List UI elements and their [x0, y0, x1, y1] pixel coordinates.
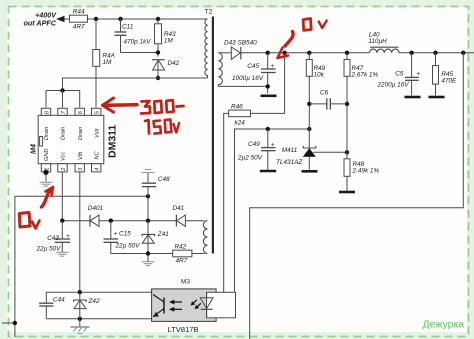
- svg-text:2µ2 50V: 2µ2 50V: [237, 155, 263, 162]
- node: divider junction: [345, 150, 349, 154]
- node: left stub junction: [13, 321, 17, 325]
- svg-text:4R7: 4R7: [73, 24, 85, 31]
- svg-text:+: +: [66, 233, 70, 240]
- svg-text:470p 1kV: 470p 1kV: [124, 39, 152, 46]
- node: drain bus junction: [60, 88, 64, 92]
- svg-text:R46: R46: [231, 104, 243, 111]
- svg-text:+ C15: + C15: [114, 231, 132, 238]
- wire: output feedback loop: [250, 53, 464, 339]
- red annotation: top 0v: [278, 19, 327, 59]
- wire: primary-side 0V line: [15, 195, 148, 197]
- capacitor C44: [39, 292, 53, 319]
- node: R43 top junction: [156, 17, 160, 21]
- wire: R46 riser: [251, 53, 285, 114]
- svg-text:LTV817B: LTV817B: [168, 325, 199, 334]
- svg-text:M411: M411: [282, 147, 298, 154]
- zener Z42: [74, 292, 87, 319]
- diode D43: [231, 47, 241, 60]
- svg-text:4: 4: [95, 168, 101, 171]
- svg-text:R44: R44: [73, 9, 85, 16]
- ground: Z41: [142, 262, 155, 266]
- svg-text:TL431AZ: TL431AZ: [276, 159, 303, 166]
- svg-text:D41: D41: [173, 205, 185, 212]
- svg-text:C6: C6: [320, 89, 329, 96]
- capacitor C49 electrolytic: [261, 129, 276, 170]
- wire: feedback box top line: [46, 291, 151, 293]
- node: Z41 bottom node: [146, 251, 150, 255]
- wire: pin7 riser: [62, 91, 64, 108]
- node: Z42 bottom junction: [78, 317, 82, 321]
- wire: secondary bottom return: [218, 85, 267, 87]
- opto LED: [200, 292, 213, 318]
- capacitor C5 electrolytic: [405, 53, 419, 96]
- svg-text:4R7: 4R7: [176, 258, 188, 265]
- pin 6: [75, 108, 84, 115]
- red annotation: bottom 0v and arrow: [19, 187, 53, 229]
- ground: R45: [429, 96, 445, 99]
- svg-text:10k: 10k: [314, 71, 325, 78]
- svg-text:C49: C49: [248, 141, 260, 148]
- node: R43/C11/D42 junction: [156, 50, 160, 54]
- svg-text:D401: D401: [88, 205, 104, 212]
- node: C48/0V line junction: [146, 194, 150, 198]
- svg-text:C11: C11: [122, 24, 134, 31]
- ground: C49: [260, 170, 276, 173]
- node: C5 rail junction: [409, 51, 413, 55]
- wire: pin8 riser: [45, 91, 47, 108]
- resistor R4A: [93, 50, 100, 67]
- node: Z41 top junction: [146, 219, 150, 223]
- wire: D42 anode to drain line: [157, 70, 159, 78]
- svg-text:1: 1: [45, 168, 51, 171]
- wire: TL431 ref to divider: [313, 151, 347, 153]
- wire: Z42 node to ground: [79, 319, 81, 327]
- resistor R45: [433, 53, 439, 96]
- svg-text:C5: C5: [395, 71, 404, 78]
- svg-text:C48: C48: [158, 176, 170, 183]
- red annotation: left arrow 300-150v: [103, 98, 184, 134]
- node: Z42 top junction: [78, 290, 82, 294]
- zener Z41: [142, 234, 155, 243]
- node: C49 junction: [266, 127, 270, 131]
- transformer T2 primary winding: [205, 19, 208, 78]
- capacitor C15 electrolytic: [104, 238, 119, 240]
- resistor R46: [229, 110, 251, 117]
- ground: pin1: [40, 182, 53, 186]
- node: output corner junction: [461, 51, 465, 55]
- node: D42/drain line junction: [156, 76, 160, 80]
- svg-text:Z41: Z41: [157, 231, 169, 238]
- pin 2: [58, 164, 67, 172]
- opto phototransistor: [153, 295, 164, 317]
- resistor R43: [155, 24, 162, 44]
- svg-text:Drain: Drain: [78, 127, 84, 140]
- svg-text:22µ 50V: 22µ 50V: [115, 242, 141, 249]
- svg-text:M4: M4: [29, 144, 38, 154]
- wire: C43 column: [61, 221, 63, 239]
- svg-text:D42: D42: [168, 60, 180, 67]
- pin 4: [92, 164, 101, 172]
- svg-text:+: +: [271, 63, 275, 70]
- wire: Vcc diode line segments: [62, 220, 90, 222]
- wire: TL431 cathode rail (k24 rail): [235, 129, 310, 318]
- svg-text:M3: M3: [181, 279, 190, 286]
- pin 8: [41, 108, 50, 115]
- svg-text:2.49k 1%: 2.49k 1%: [352, 168, 380, 175]
- capacitor C11: [115, 31, 127, 33]
- wire: secondary top to D43: [218, 52, 231, 54]
- transformer T2 core: [212, 17, 214, 254]
- pin 3: [75, 164, 84, 172]
- pin1 pad dot: [43, 170, 48, 175]
- ground: C43: [56, 252, 69, 256]
- shunt reference U M411 TL431: [303, 129, 316, 170]
- svg-text:+: +: [416, 70, 420, 77]
- node: R47 rail junction: [345, 51, 349, 55]
- svg-text:D43 SB540: D43 SB540: [224, 40, 257, 47]
- node: Vcc/C43 junction: [60, 219, 64, 223]
- svg-text:+: +: [271, 142, 275, 149]
- notch: [40, 137, 43, 147]
- node: R49 rail junction: [307, 51, 311, 55]
- svg-text:C44: C44: [53, 297, 65, 304]
- wire: C15 bottom to Z41 bottom node: [111, 253, 173, 255]
- inductor L40: [370, 47, 400, 53]
- svg-text:22µ 50V: 22µ 50V: [36, 246, 62, 253]
- svg-text:k24: k24: [235, 119, 246, 126]
- wire: pin3 Vfb down: [79, 172, 81, 292]
- svg-text:2.67k 1%: 2.67k 1%: [351, 71, 379, 78]
- pin 1: [41, 164, 50, 172]
- wire: C48 column to Vcc diode line: [147, 196, 149, 220]
- node: R45 rail junction: [433, 51, 437, 55]
- wire: C15 column: [110, 221, 112, 239]
- text labels primary side: [24, 8, 213, 264]
- svg-text:1M: 1M: [164, 38, 174, 45]
- ground: C5: [405, 96, 421, 99]
- svg-text:R42: R42: [175, 243, 187, 250]
- svg-text:Drain: Drain: [61, 127, 67, 140]
- resistor R47: [344, 53, 350, 153]
- ground: R48: [339, 191, 355, 194]
- wire: pin6 riser: [79, 91, 81, 108]
- node: C11 top junction: [118, 17, 122, 21]
- wire: R4A column / Vstr riser: [95, 19, 97, 50]
- node: C45 rail junction: [266, 51, 270, 55]
- svg-text:1M: 1M: [103, 59, 113, 66]
- wire: left edge drop: [14, 196, 16, 337]
- wire: R42 right to aux winding bottom: [192, 253, 205, 255]
- svg-text:GND: GND: [44, 149, 50, 161]
- node: C6 right junction: [345, 102, 349, 106]
- wire: R46 left to opto LED anode: [224, 113, 229, 292]
- wire: left off-page stub: [2, 322, 15, 324]
- wire: C11 bottom to R43 bottom: [121, 52, 159, 54]
- svg-text:Дежурка: Дежурка: [423, 319, 465, 331]
- text labels secondary side: [224, 32, 457, 175]
- resistor R49: [306, 53, 312, 129]
- svg-text:Vfb: Vfb: [78, 152, 84, 160]
- wire: drain line to transformer primary bottom: [63, 78, 208, 91]
- wire: Z41 column: [147, 221, 149, 235]
- svg-text:110µH: 110µH: [368, 38, 387, 45]
- wire: pin1 GND stub: [45, 172, 47, 181]
- capacitor C45 electrolytic: [261, 53, 276, 94]
- svg-text:NC: NC: [94, 150, 100, 159]
- svg-text:C43: C43: [47, 235, 59, 242]
- svg-text:470E: 470E: [441, 77, 457, 84]
- node: C15 top junction: [109, 219, 113, 223]
- optocoupler white window: [207, 292, 236, 318]
- svg-text:Drain: Drain: [44, 127, 50, 140]
- svg-text:C45: C45: [247, 63, 259, 70]
- svg-text:T2: T2: [205, 8, 213, 15]
- node: C45 bottom junction: [266, 84, 270, 88]
- capacitor C6: [309, 98, 347, 109]
- ground: Vfb node (hatched): [71, 327, 90, 333]
- diode D42: [152, 60, 165, 70]
- node: C6 left junction: [307, 102, 311, 106]
- wire: pin2 Vcc down: [61, 172, 63, 221]
- wire: drain pins bus: [46, 90, 80, 92]
- wire: secondary output rail: [241, 52, 370, 54]
- wire: feedback box bottom line: [46, 318, 151, 320]
- pin 7: [58, 108, 67, 115]
- svg-text:Z42: Z42: [88, 298, 100, 305]
- transformer T2 secondary winding: [218, 53, 222, 87]
- capacitor C48: [142, 173, 156, 196]
- ground: C45: [261, 95, 277, 98]
- wire: R43 column: [157, 19, 159, 24]
- wire: C11 column: [120, 19, 122, 32]
- opto base arrows: [169, 300, 182, 312]
- capacitor C43 electrolytic: [55, 238, 70, 240]
- optocoupler M3 body: [152, 289, 217, 322]
- ground: TL431: [302, 170, 318, 173]
- node: TL431 cathode junction: [307, 127, 311, 131]
- resistor R44: [70, 15, 88, 22]
- svg-text:DM311: DM311: [107, 125, 119, 158]
- pin 5: [92, 108, 101, 115]
- resistor R48: [344, 152, 350, 190]
- svg-text:Vcc: Vcc: [61, 151, 67, 161]
- ground: C48 top (upward): [142, 170, 155, 173]
- node: R44/R4A junction: [94, 17, 98, 21]
- svg-text:out APFC: out APFC: [24, 18, 57, 27]
- transformer T2 aux winding: [203, 221, 207, 254]
- wire: +400V top rail: [64, 18, 70, 20]
- svg-text:1000µ 16V: 1000µ 16V: [232, 75, 264, 82]
- node: R46 riser rail junction: [282, 51, 286, 55]
- opto light arrows: [191, 300, 201, 309]
- diode D41: [176, 215, 185, 227]
- svg-text:2200µ 16V: 2200µ 16V: [377, 82, 410, 89]
- svg-text:Vstr: Vstr: [94, 127, 100, 138]
- transistor-IC U: DM311 body: [38, 115, 104, 163]
- diode D401: [90, 215, 99, 227]
- resistor R42: [173, 250, 192, 257]
- out APFC arrow: [56, 16, 65, 23]
